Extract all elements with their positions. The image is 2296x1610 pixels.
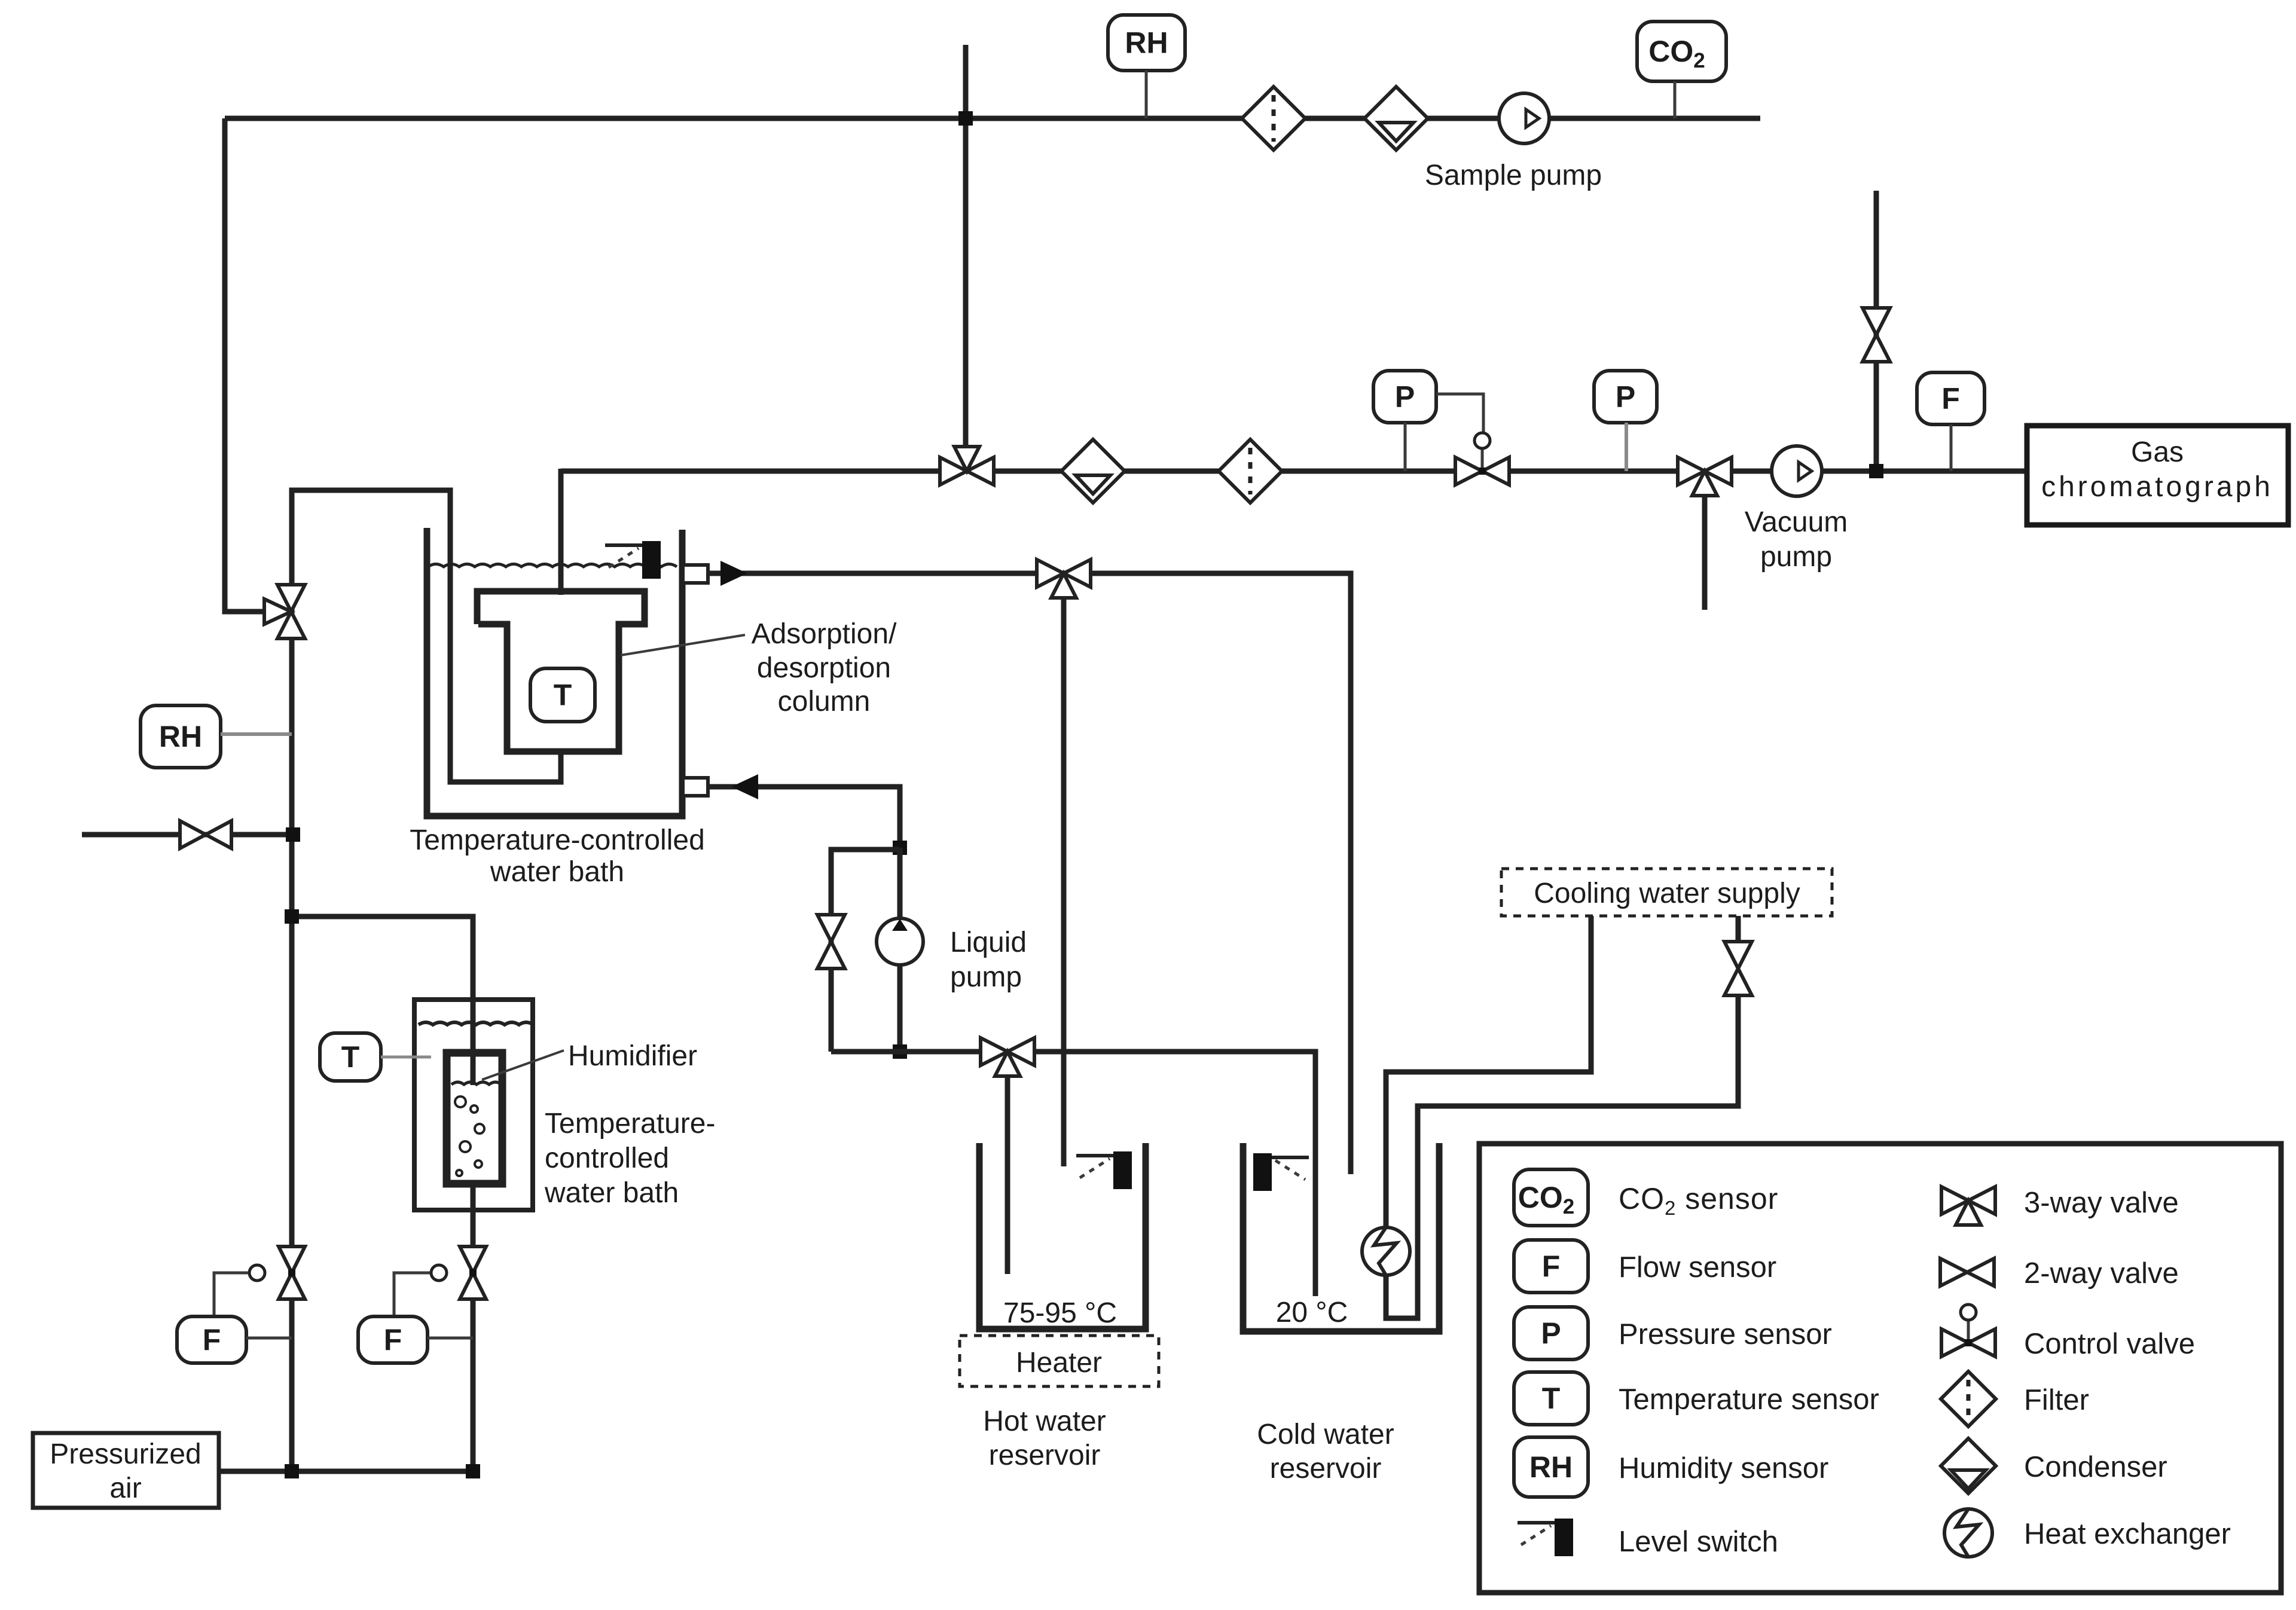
legend: RH sensor symbol — [1514, 1437, 1588, 1497]
wire: P2 stem — [1625, 423, 1628, 471]
svg-text:RH: RH — [159, 720, 202, 753]
svg-text:Filter: Filter — [2024, 1384, 2089, 1416]
water level (lower bath) — [419, 1022, 533, 1025]
svg-text:Heater: Heater — [1016, 1347, 1102, 1379]
T sensor box (lower bath) — [320, 1033, 381, 1081]
level switch (hot tank) — [1113, 1151, 1132, 1189]
bubbles (humidifier) — [455, 1096, 466, 1107]
heater box (dashed) — [960, 1336, 1159, 1386]
svg-text:Vacuum: Vacuum — [1745, 506, 1848, 538]
svg-text:Pressure sensor: Pressure sensor — [1619, 1318, 1832, 1351]
node: junction liquid-pump loop top — [893, 841, 907, 855]
arrow: column return flow — [731, 774, 758, 799]
wire: GC vent vertical with valve — [1874, 191, 1879, 471]
2-way valve (GC vent) — [1863, 308, 1890, 362]
wire: F2 connector — [428, 1337, 473, 1340]
wire: left vertical from top line — [225, 118, 265, 612]
svg-text:Level switch: Level switch — [1619, 1526, 1778, 1558]
legend: filter symbol — [1941, 1371, 1996, 1426]
svg-text:Cooling water supply: Cooling water supply — [1534, 878, 1800, 909]
T sensor box (column) — [530, 668, 595, 722]
3-way valve (upper-left manifold) — [277, 585, 305, 638]
svg-text:F: F — [1941, 382, 1960, 416]
wire: cooling water supply right drop — [1736, 916, 1741, 948]
legend: CO2 sensor symbol — [1514, 1169, 1588, 1226]
wire: left gas manifold vertical — [289, 601, 295, 1471]
node: junction vent line / manifold — [286, 827, 300, 842]
F sensor 2 — [358, 1316, 428, 1363]
svg-text:F: F — [1542, 1249, 1561, 1283]
3-way valve (sample branch) — [940, 457, 994, 485]
P sensor 1 — [1373, 371, 1436, 423]
water level (upper bath) — [428, 564, 677, 567]
svg-text:Control valve: Control valve — [2024, 1328, 2195, 1360]
wire: liquid line to 3-way valve and cold tank — [831, 1052, 1315, 1296]
node: junction liquid-pump loop bottom — [893, 1044, 907, 1059]
svg-text:reservoir: reservoir — [989, 1440, 1101, 1471]
svg-text:F: F — [384, 1323, 402, 1357]
svg-text:Condenser: Condenser — [2024, 1451, 2167, 1483]
svg-text:pump: pump — [950, 961, 1022, 993]
svg-text:Temperature-controlled: Temperature-controlled — [410, 824, 705, 856]
vacuum pump — [1772, 446, 1822, 496]
label leader: adsorption column — [621, 635, 745, 655]
svg-text:75-95 °C: 75-95 °C — [1003, 1297, 1117, 1329]
svg-text:Humidity sensor: Humidity sensor — [1619, 1452, 1828, 1484]
svg-text:Temperature sensor: Temperature sensor — [1619, 1383, 1879, 1416]
wire: column return line — [708, 787, 900, 848]
wire: RH connector (left) — [221, 732, 292, 736]
svg-text:Hot water: Hot water — [983, 1406, 1106, 1437]
RH sensor (top) — [1108, 15, 1185, 71]
wire: liquid pump main leg — [897, 848, 903, 1052]
svg-text:Temperature-: Temperature- — [545, 1108, 715, 1139]
svg-text:Sample pump: Sample pump — [1425, 160, 1602, 191]
2-way valve (cooling line) — [1724, 942, 1752, 995]
cooling water supply box (dashed) — [1501, 869, 1832, 916]
svg-text:RH: RH — [1529, 1450, 1573, 1484]
svg-text:P: P — [1541, 1316, 1561, 1350]
cold water reservoir — [1243, 1143, 1439, 1331]
node: junction humidifier branch — [285, 909, 299, 924]
svg-text:Gas: Gas — [2131, 436, 2184, 468]
wire: humidifier outlet vertical — [471, 1184, 476, 1471]
wire: top sample line — [225, 116, 1760, 121]
pressurized air box — [33, 1433, 219, 1508]
svg-text:desorption: desorption — [757, 652, 891, 684]
svg-text:Liquid: Liquid — [950, 927, 1027, 958]
node: junction air header / manifold — [285, 1464, 299, 1478]
water level (humidifier) — [451, 1082, 502, 1084]
wire: liquid pump bypass loop — [831, 850, 900, 1052]
RH sensor (left) — [141, 705, 221, 768]
svg-text:P: P — [1395, 380, 1415, 414]
column return stub — [683, 778, 708, 796]
legend: level switch symbol — [1555, 1519, 1573, 1556]
svg-text:pump: pump — [1760, 541, 1832, 573]
F sensor 1 — [177, 1316, 246, 1363]
svg-text:chromatograph: chromatograph — [2041, 471, 2273, 503]
legend: F sensor symbol — [1514, 1240, 1588, 1293]
arrow: column outlet flow — [720, 561, 747, 586]
temperature-controlled water bath (upper) — [427, 528, 682, 816]
legend: heat exchanger symbol — [1944, 1509, 1992, 1557]
wire: gas-chromatograph line — [561, 469, 2027, 474]
column outlet stub — [683, 565, 708, 583]
hot water reservoir — [979, 1143, 1146, 1329]
liquid pump — [877, 918, 923, 965]
wire: desorption vapor tube into hot tank — [1061, 594, 1067, 1166]
svg-text:air: air — [109, 1472, 141, 1504]
svg-text:F: F — [203, 1323, 221, 1357]
gas chromatograph box — [2027, 426, 2288, 525]
control valve (GC line) — [1455, 457, 1509, 485]
adsorption/desorption column — [477, 591, 645, 751]
legend box — [1479, 1144, 2281, 1593]
svg-text:3-way valve: 3-way valve — [2024, 1187, 2179, 1219]
svg-text:20 °C: 20 °C — [1276, 1297, 1348, 1328]
svg-text:Cold water: Cold water — [1257, 1419, 1394, 1450]
svg-text:Heat exchanger: Heat exchanger — [2024, 1518, 2231, 1550]
heat exchanger — [1362, 1227, 1410, 1275]
sample pump — [1499, 93, 1549, 143]
F sensor (GC line) — [1917, 372, 1984, 424]
wire: upper-left valve to bath loop — [292, 490, 561, 782]
svg-text:reservoir: reservoir — [1270, 1453, 1382, 1484]
level switch (cold tank) — [1253, 1153, 1272, 1191]
3-way valve (adsorption line) — [1037, 560, 1091, 587]
svg-text:water bath: water bath — [544, 1177, 679, 1209]
wire: F1 feedback — [214, 1273, 248, 1316]
wire: sample-branch vertical (top stub to GC-line valve) — [963, 45, 969, 457]
wire: vent line with 2-way valve — [82, 832, 292, 838]
2-way valve (pump bypass) — [817, 915, 845, 969]
svg-text:T: T — [1542, 1382, 1561, 1415]
filter (sample line) — [1242, 87, 1305, 150]
wire: P1 stem — [1404, 423, 1407, 471]
wire: pressurized air header — [219, 1469, 473, 1474]
filter (GC line) — [1219, 439, 1282, 503]
label leader: humidifier — [482, 1050, 564, 1080]
wire: T sensor connector (lower bath) — [381, 1056, 431, 1059]
condenser (sample line) — [1364, 87, 1428, 150]
wire: adsorption outlet line — [708, 573, 1351, 1174]
svg-text:P: P — [1616, 380, 1635, 414]
wire: vacuum branch stem — [1702, 490, 1708, 610]
svg-text:CO2 sensor: CO2 sensor — [1619, 1182, 1778, 1219]
wire: cooling water supply left drop — [1386, 916, 1591, 1232]
level switch (upper bath) — [642, 541, 661, 579]
wire: CO2 stem — [1674, 81, 1677, 118]
node: junction GC line / vent — [1869, 464, 1883, 478]
legend: control valve symbol — [1941, 1329, 1995, 1357]
humidifier vessel — [447, 1053, 502, 1184]
wire: hot water dip tube — [1005, 1070, 1010, 1274]
svg-text:Adsorption/: Adsorption/ — [752, 618, 897, 650]
svg-text:Flow sensor: Flow sensor — [1619, 1251, 1776, 1284]
legend: condenser symbol — [1941, 1438, 1996, 1493]
control valve (humidifier leg) — [460, 1247, 486, 1299]
P sensor 2 — [1594, 371, 1657, 423]
wire: F2 feedback — [394, 1273, 430, 1316]
node: junction air header / humidifier leg — [466, 1464, 480, 1478]
svg-text:water bath: water bath — [490, 856, 624, 888]
temperature-controlled water bath (lower) — [414, 1000, 533, 1210]
3-way valve (vacuum branch) — [1678, 457, 1732, 485]
wire: column feed drop — [558, 469, 564, 595]
CO2 sensor (top) — [1637, 22, 1726, 81]
svg-text:controlled: controlled — [545, 1142, 669, 1174]
svg-text:Pressurized: Pressurized — [50, 1438, 201, 1470]
legend: 2-way valve symbol — [1940, 1258, 1994, 1286]
svg-text:T: T — [554, 679, 572, 712]
legend: T sensor symbol — [1514, 1372, 1588, 1425]
legend: P sensor symbol — [1514, 1307, 1588, 1360]
control valve (left manifold) — [279, 1247, 305, 1299]
3-way valve (hot/cold selector) — [981, 1038, 1034, 1065]
legend: 3-way valve symbol — [1941, 1187, 1995, 1214]
svg-text:T: T — [341, 1040, 360, 1074]
svg-text:Humidifier: Humidifier — [568, 1040, 697, 1072]
2-way valve (vent line) — [180, 821, 231, 848]
wire: F1 connector — [246, 1337, 292, 1340]
wire: P1 to control valve — [1436, 394, 1483, 432]
svg-text:2-way valve: 2-way valve — [2024, 1257, 2179, 1290]
wire: heat exchanger loop — [1386, 992, 1738, 1318]
condenser (GC line) — [1061, 439, 1125, 503]
wire: RH stem (top) — [1145, 71, 1148, 118]
wire: humidifier branch — [292, 916, 473, 1085]
node: junction top line / sample branch — [958, 111, 973, 126]
svg-text:RH: RH — [1125, 26, 1168, 60]
svg-text:column: column — [778, 686, 871, 717]
wire: F stem (GC line) — [1950, 424, 1953, 471]
